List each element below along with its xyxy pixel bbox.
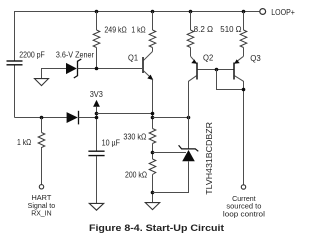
node junction dot Q3 collector tie bbox=[242, 88, 246, 92]
node junction dot zener row bbox=[95, 67, 99, 71]
resistor R4 510 Ohm bbox=[240, 12, 247, 57]
svg-text:3.6-V Zener: 3.6-V Zener bbox=[56, 51, 94, 60]
svg-text:RX_IN: RX_IN bbox=[31, 208, 51, 217]
transistor Q3 PNP bbox=[234, 56, 244, 185]
svg-text:Q1: Q1 bbox=[128, 53, 138, 62]
terminal current output (open circle) bbox=[241, 185, 245, 189]
node junction dot (152.5,117.5) bbox=[151, 116, 155, 120]
resistor R7 200 kOhm bbox=[149, 159, 156, 203]
label Current sourced to loop control bbox=[223, 194, 265, 219]
node junction dot base tie bbox=[215, 68, 219, 72]
wire zener anode to ground corner bbox=[42, 69, 67, 79]
svg-text:Figure 8-4. Start-Up Circuit: Figure 8-4. Start-Up Circuit bbox=[89, 223, 224, 233]
diode D1 bbox=[67, 111, 79, 125]
svg-text:10 µF: 10 µF bbox=[102, 139, 120, 148]
svg-text:LOOP+: LOOP+ bbox=[271, 8, 295, 17]
shunt regulator U1 TLVH431BCDBZR bbox=[153, 145, 199, 192]
wire Q1 emitter down bbox=[152, 79, 154, 128]
wire top rail to LOOP+ bbox=[14, 11, 260, 13]
zener diode Z1 3.6-V bbox=[66, 59, 81, 78]
node junction dot divider tap bbox=[151, 151, 155, 155]
ground G2 (open triangle) bbox=[89, 203, 103, 210]
svg-text:510 Ω: 510 Ω bbox=[220, 25, 241, 34]
wire left vertical upper bbox=[14, 12, 16, 61]
ground G3 (open triangle) bbox=[145, 203, 159, 210]
svg-text:330 kΩ: 330 kΩ bbox=[123, 133, 146, 142]
resistor R2 1 kOhm bbox=[149, 12, 156, 52]
wire left vertical lower bbox=[14, 66, 16, 118]
node junction dot top of R1 bbox=[95, 10, 99, 14]
capacitor C2 10 uF bbox=[88, 151, 104, 203]
resistor R6 330 kOhm bbox=[149, 129, 156, 160]
resistor R3 8.2 Ohm bbox=[187, 12, 194, 57]
wire zener cathode to Q1 base bbox=[78, 68, 143, 70]
node junction dot (188.5,117.5) bbox=[187, 116, 191, 120]
wire REF tap to TLVH431 bbox=[153, 152, 187, 154]
svg-text:TLVH431BCDBZR: TLVH431BCDBZR bbox=[204, 122, 214, 195]
transistor Q2 PNP bbox=[189, 56, 234, 149]
svg-text:loop control: loop control bbox=[223, 209, 265, 218]
wire stem to R5 bbox=[41, 118, 43, 133]
resistor R1 249 kOhm bbox=[93, 12, 100, 69]
label HART Signal to RX_IN bbox=[28, 193, 56, 217]
svg-text:Q3: Q3 bbox=[250, 54, 261, 63]
terminal HART (open circle) bbox=[39, 185, 43, 189]
node junction dot HART tap bbox=[40, 116, 44, 120]
wire 3V3 node to Q1 emitter node bbox=[97, 113, 153, 115]
node junction dot (96.5,113.5) bbox=[95, 112, 99, 116]
svg-text:3V3: 3V3 bbox=[90, 90, 104, 99]
svg-text:8.2 Ω: 8.2 Ω bbox=[194, 25, 214, 34]
ground G1 (open triangle) bbox=[35, 79, 49, 86]
svg-text:1 kΩ: 1 kΩ bbox=[17, 138, 31, 147]
svg-text:Q2: Q2 bbox=[203, 53, 214, 62]
node junction dot (96.5,117.5) bbox=[95, 116, 99, 120]
svg-text:200 kΩ: 200 kΩ bbox=[125, 171, 147, 180]
node junction dot top of R4 bbox=[242, 10, 246, 14]
svg-text:2200 pF: 2200 pF bbox=[19, 51, 45, 60]
transistor Q1 NPN bbox=[143, 52, 153, 81]
capacitor C1 2200 pF bbox=[7, 61, 23, 65]
svg-text:1 kΩ: 1 kΩ bbox=[131, 25, 145, 34]
wire node to TLVH431 cathode column bbox=[153, 117, 189, 119]
wire diode cathode to 3V3 node bbox=[79, 117, 97, 119]
supply arrow 3V3 bbox=[93, 100, 100, 151]
node junction dot top of R2 bbox=[151, 10, 155, 14]
node junction dot top of R3 bbox=[189, 10, 193, 14]
node junction dot (152.5,113.5) bbox=[151, 112, 155, 116]
svg-text:249 kΩ: 249 kΩ bbox=[104, 25, 126, 34]
resistor R5 1 kOhm (HART input) bbox=[38, 133, 45, 149]
wire to HART terminal bbox=[41, 149, 43, 185]
node junction dot anode row bbox=[151, 191, 155, 195]
wire base tie to Q3 collector bbox=[217, 70, 244, 90]
wire bottom-left rail bbox=[15, 117, 67, 119]
terminal LOOP+ (open circle) bbox=[260, 9, 266, 15]
